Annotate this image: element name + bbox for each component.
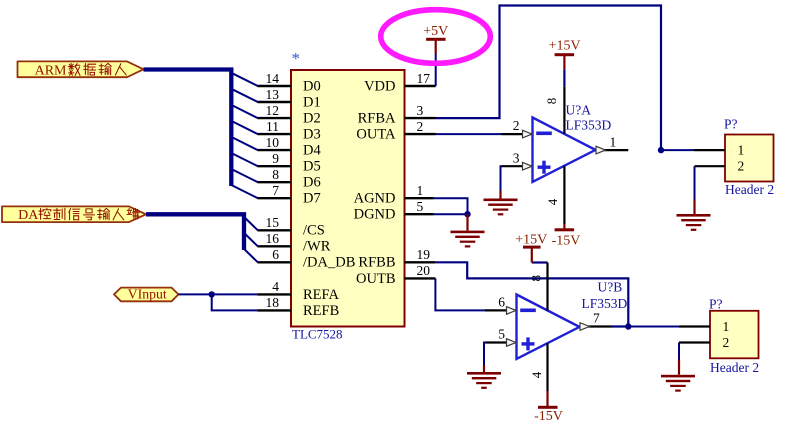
pin name D3 <box>303 127 321 143</box>
U?A pin 2 arrow <box>523 130 533 138</box>
pin number 12 <box>266 103 280 118</box>
pin number 5 <box>417 199 424 214</box>
wire VInput to REFB <box>212 294 258 310</box>
bus entry wire to D1 <box>231 89 257 102</box>
wire OUTA to U?A in- <box>436 133 502 135</box>
pin name DGND <box>354 207 396 223</box>
power -15V bar (U?B) <box>538 406 558 409</box>
wire OUTB to U?B in- <box>435 278 485 310</box>
svg-text:D6: D6 <box>303 175 321 191</box>
header bottom pin1 stub <box>679 325 710 327</box>
svg-text:6: 6 <box>498 295 505 310</box>
pin 3 (RFBA) stub <box>405 117 436 119</box>
port ARM data input <box>18 61 144 78</box>
U?A pin 4 label <box>545 198 560 205</box>
header bottom pin2 stub <box>679 341 710 343</box>
pin 16 (/WR) stub <box>258 245 292 247</box>
wire header bottom pin2 to ground <box>678 343 680 360</box>
svg-text:2: 2 <box>417 119 424 134</box>
svg-text:13: 13 <box>266 87 280 102</box>
pin name D0 <box>303 78 321 94</box>
pin number 11 <box>266 119 279 134</box>
connector P? (top) body <box>725 135 774 182</box>
pin number 10 <box>266 135 280 150</box>
wire output node B to header <box>628 326 679 328</box>
pin name /CS <box>303 223 325 239</box>
pin name OUTB <box>356 271 395 287</box>
U?A pin 4 line <box>563 166 565 224</box>
svg-text:RFBB: RFBB <box>358 255 395 271</box>
op-amp U?B triangle <box>517 295 580 359</box>
U?B pin 5 label <box>498 327 505 342</box>
bus entry wire to D4 <box>231 137 257 150</box>
connector P? (bottom) designator <box>709 296 723 311</box>
svg-text:OUTB: OUTB <box>356 271 395 287</box>
svg-text:AGND: AGND <box>354 191 396 207</box>
svg-text:D3: D3 <box>303 127 321 143</box>
ground (header top) <box>677 214 711 231</box>
wire VDD pin17 to +5V <box>435 54 437 87</box>
U?B pin 4 label <box>529 371 544 378</box>
power +15V bar (U?B) <box>523 246 541 249</box>
U?B pin 6 label <box>498 295 505 310</box>
U?A output arrow <box>596 146 606 154</box>
svg-text:*: * <box>292 49 301 68</box>
ground (DGND) <box>451 231 485 248</box>
pin 4 (REFA) stub <box>258 293 292 295</box>
pin number 9 <box>272 151 279 166</box>
wire RFBA feedback loop <box>436 6 662 151</box>
pin number 16 <box>266 231 280 246</box>
power label +15V (U?A) <box>549 39 581 54</box>
svg-text:8: 8 <box>529 275 544 282</box>
U?A designator <box>566 103 592 118</box>
connector P? (top) designator <box>724 117 738 132</box>
svg-text:1: 1 <box>723 319 730 334</box>
ground stem (header top) <box>693 200 695 215</box>
U?B pin 7 label <box>593 310 600 325</box>
bus entry wire pin row 10 <box>244 233 258 246</box>
pin number 13 <box>266 87 280 102</box>
svg-text:12: 12 <box>266 103 280 118</box>
ground stem (U?B in+) <box>483 365 485 372</box>
U?A pin 3 label <box>513 150 520 165</box>
pin 18 (REFB) stub <box>258 309 292 311</box>
U?A pin 8 line <box>563 86 565 134</box>
wire output node to header P1 pin1 <box>661 149 694 151</box>
bus entry wire to D5 <box>231 153 257 166</box>
svg-text:RFBA: RFBA <box>358 111 396 127</box>
power label -15V (U?A) <box>552 233 581 248</box>
pin name D6 <box>303 175 321 191</box>
pin number 18 <box>266 295 280 310</box>
pin name REFB <box>303 303 339 319</box>
pin 9 (D5) stub <box>258 165 292 167</box>
pin 15 (/CS) stub <box>258 229 292 231</box>
svg-text:18: 18 <box>266 295 280 310</box>
power +5V bar <box>426 38 446 41</box>
svg-text:20: 20 <box>417 263 431 278</box>
power +15V bar (U?A) <box>555 53 575 56</box>
wire DGND pin5 <box>434 213 468 215</box>
pin name OUTA <box>356 127 396 143</box>
svg-text:8: 8 <box>544 98 559 105</box>
bus wire ARM data <box>144 70 232 187</box>
power +15V stem (U?B) <box>531 248 533 263</box>
svg-text:/CS: /CS <box>303 223 325 239</box>
pin name D7 <box>303 191 321 207</box>
svg-text:D0: D0 <box>303 78 321 94</box>
pin number 2 <box>417 119 424 134</box>
U?B pin 8 wire <box>532 261 548 263</box>
pin name /WR <box>303 239 331 255</box>
pin name D5 <box>303 159 321 175</box>
pin number 3 <box>417 103 424 118</box>
ground stem (DGND) <box>466 214 468 230</box>
ground stem (header bottom) <box>678 360 680 375</box>
bus wire DA control <box>146 214 244 250</box>
svg-text:U?B: U?B <box>598 280 623 295</box>
pin 10 (D4) stub <box>258 149 292 151</box>
pin 20 (OUTB) stub <box>405 277 436 279</box>
pin 19 (RFBB) stub <box>405 261 436 263</box>
U?A pin 8 label <box>544 98 559 105</box>
pin number 4 <box>272 279 279 294</box>
svg-text:9: 9 <box>272 151 279 166</box>
connector P? (top) pin 1 label <box>738 143 745 158</box>
IC U? TLC7528 body <box>291 70 405 327</box>
svg-text:/DA_DB: /DA_DB <box>303 255 355 271</box>
wire AGND pin1 <box>434 198 468 214</box>
op-amp U?A plus symbol <box>538 161 551 174</box>
svg-text:8: 8 <box>272 167 279 182</box>
svg-text:VDD: VDD <box>364 78 395 94</box>
svg-text:/WR: /WR <box>303 239 331 255</box>
ground (header bottom) <box>661 375 695 392</box>
pin name D4 <box>303 143 321 159</box>
power label +5V <box>423 24 448 39</box>
svg-text:-15V: -15V <box>534 409 563 424</box>
pin number 8 <box>272 167 279 182</box>
svg-text:D5: D5 <box>303 159 321 175</box>
pin number 7 <box>272 183 279 198</box>
svg-text:6: 6 <box>272 247 279 262</box>
pin number 14 <box>266 71 280 86</box>
wire U?A in+ to ground <box>501 166 502 190</box>
bus entry wire pin row 9 <box>244 217 258 230</box>
pin number 1 <box>417 183 424 198</box>
svg-text:P?: P? <box>724 117 738 132</box>
ground (U?B in+) <box>467 372 501 389</box>
bus entry wire to D6 <box>231 169 257 182</box>
U?A pin 1 label <box>610 135 617 150</box>
svg-text:5: 5 <box>498 327 505 342</box>
svg-text:16: 16 <box>266 231 280 246</box>
wire VInput to REFA <box>179 293 258 295</box>
highlight ellipse (magenta) <box>381 10 491 64</box>
pin name RFBB <box>358 255 395 271</box>
svg-text:4: 4 <box>272 279 279 294</box>
svg-text:2: 2 <box>723 335 730 350</box>
pin 7 (D7) stub <box>258 197 292 199</box>
header top pin1 stub <box>694 149 725 151</box>
U?A pin 3 line <box>502 165 524 167</box>
pin 8 (D6) stub <box>258 181 292 183</box>
junction VInput node <box>209 291 215 297</box>
svg-text:ARM: ARM <box>35 63 67 78</box>
svg-text:U?A: U?A <box>566 103 592 118</box>
svg-text:D2: D2 <box>303 111 321 127</box>
U?B pin 5 line <box>486 341 508 343</box>
svg-text:REFB: REFB <box>303 303 339 319</box>
pin 2 (OUTA) stub <box>405 133 436 135</box>
U?B pin 6 line <box>485 309 507 311</box>
pin 11 (D3) stub <box>258 133 292 135</box>
pin 1 (AGND) stub <box>405 197 434 199</box>
op-amp U?A triangle <box>533 118 596 182</box>
junction DGND node <box>464 211 470 217</box>
wire U?B in+ to ground <box>484 343 486 366</box>
ground (U?A in+) <box>484 199 518 216</box>
junction op-amp B output node <box>625 323 631 329</box>
U?B designator <box>598 280 623 295</box>
pin name D2 <box>303 111 321 127</box>
U?B pin 4 line <box>546 343 548 391</box>
power label +15V (U?B) <box>515 233 547 248</box>
svg-text:Header 2: Header 2 <box>725 182 774 197</box>
svg-text:D4: D4 <box>303 143 321 159</box>
port VInput <box>114 287 179 302</box>
svg-text:D7: D7 <box>303 191 321 207</box>
pin number 17 <box>417 71 431 86</box>
svg-text:15: 15 <box>266 215 280 230</box>
U?B part LF353D <box>582 296 628 311</box>
pin 14 (D0) stub <box>258 85 292 87</box>
U?A part LF353D <box>566 118 612 133</box>
op-amp U?B minus symbol <box>520 308 536 312</box>
svg-text:3: 3 <box>417 103 424 118</box>
power +5V stem <box>435 39 437 54</box>
svg-text:14: 14 <box>266 71 280 86</box>
pin 5 (DGND) stub <box>405 213 434 215</box>
port DA control input <box>2 206 146 223</box>
pin number 20 <box>417 263 431 278</box>
svg-text:+15V: +15V <box>515 233 547 248</box>
U?B output pin line <box>589 325 613 327</box>
svg-text:19: 19 <box>417 247 431 262</box>
svg-text:4: 4 <box>545 198 560 205</box>
svg-text:P?: P? <box>709 296 723 311</box>
svg-text:5: 5 <box>417 199 424 214</box>
power -15V bar (U?A) <box>555 228 575 231</box>
op-amp U?B plus symbol <box>522 337 535 350</box>
connector (bottom) part Header 2 <box>710 360 759 375</box>
svg-text:4: 4 <box>529 371 544 378</box>
svg-text:VInput: VInput <box>128 287 167 302</box>
U?B pin 8 line <box>546 263 548 311</box>
U?B pin 8 label <box>529 275 544 282</box>
pin 13 (D1) stub <box>258 101 292 103</box>
svg-text:DGND: DGND <box>354 207 396 223</box>
pin name AGND <box>354 191 396 207</box>
bus entry wire to D3 <box>231 121 257 134</box>
bus entry wire pin row 11 <box>244 249 258 262</box>
svg-text:REFA: REFA <box>303 287 340 303</box>
svg-text:TLC7528: TLC7528 <box>292 326 343 341</box>
pin name D1 <box>303 94 321 110</box>
junction op-amp A output node <box>658 147 664 153</box>
wire header top pin2 to ground <box>694 166 696 199</box>
ground stem (U?A in+) <box>499 191 501 199</box>
wire U?B output <box>612 325 628 327</box>
pin name REFA <box>303 287 340 303</box>
svg-text:1: 1 <box>738 143 745 158</box>
power -15V stem (U?B) <box>546 391 548 407</box>
U?B pin 6 arrow <box>507 307 517 315</box>
power label -15V (U?B) <box>534 409 563 424</box>
bus entry wire to D7 <box>231 185 257 198</box>
svg-text:7: 7 <box>593 310 600 325</box>
svg-text:Header 2: Header 2 <box>710 360 759 375</box>
svg-text:1: 1 <box>417 183 424 198</box>
bus entry wire to D0 <box>231 73 257 86</box>
svg-text:11: 11 <box>266 119 279 134</box>
U?A output pin line <box>605 149 629 151</box>
svg-text:LF353D: LF353D <box>566 118 612 133</box>
IC part label TLC7528 <box>292 326 343 341</box>
connector P? (top) pin 2 label <box>738 159 745 174</box>
connector (top) part Header 2 <box>725 182 774 197</box>
pin name /DA_DB <box>303 255 355 271</box>
svg-text:1: 1 <box>610 135 617 150</box>
pin name VDD <box>364 78 395 94</box>
connector P? (bottom) pin 2 label <box>723 335 730 350</box>
U?B output arrow <box>580 323 590 331</box>
svg-text:2: 2 <box>738 159 745 174</box>
svg-text:17: 17 <box>417 71 431 86</box>
U?A pin 3 arrow <box>523 162 533 170</box>
pin number 19 <box>417 247 431 262</box>
bus entry wire to D2 <box>231 105 257 118</box>
svg-text:-15V: -15V <box>552 233 581 248</box>
svg-text:LF353D: LF353D <box>582 296 628 311</box>
svg-text:2: 2 <box>513 118 520 133</box>
U?A pin 2 line <box>502 133 524 135</box>
power +15V stem (U?A) <box>563 55 565 70</box>
svg-text:10: 10 <box>266 135 280 150</box>
connector P? (bottom) body <box>710 311 759 359</box>
svg-text:D1: D1 <box>303 94 321 110</box>
svg-text:3: 3 <box>513 150 520 165</box>
pin name RFBA <box>358 111 396 127</box>
svg-text:DA: DA <box>18 208 39 223</box>
wire RFBB feedback loop <box>435 262 628 326</box>
op-amp U?A minus symbol <box>536 132 552 136</box>
svg-text:+5V: +5V <box>423 24 448 39</box>
connector P? (bottom) pin 1 label <box>723 319 730 334</box>
U?B pin 5 arrow <box>507 339 517 347</box>
svg-text:7: 7 <box>272 183 279 198</box>
pin number 6 <box>272 247 279 262</box>
pin 12 (D2) stub <box>258 117 292 119</box>
U?A pin 8 wire <box>563 69 565 86</box>
header top pin2 stub <box>695 165 726 167</box>
pin 6 (/DA_DB) stub <box>258 261 292 263</box>
power -15V stem (U?A) <box>563 224 565 230</box>
pin 17 (VDD) stub <box>405 85 436 87</box>
pin number 15 <box>266 215 280 230</box>
U?A pin 2 label <box>513 118 520 133</box>
svg-text:OUTA: OUTA <box>356 127 396 143</box>
svg-text:+15V: +15V <box>549 39 581 54</box>
IC designator marker * <box>292 49 301 68</box>
